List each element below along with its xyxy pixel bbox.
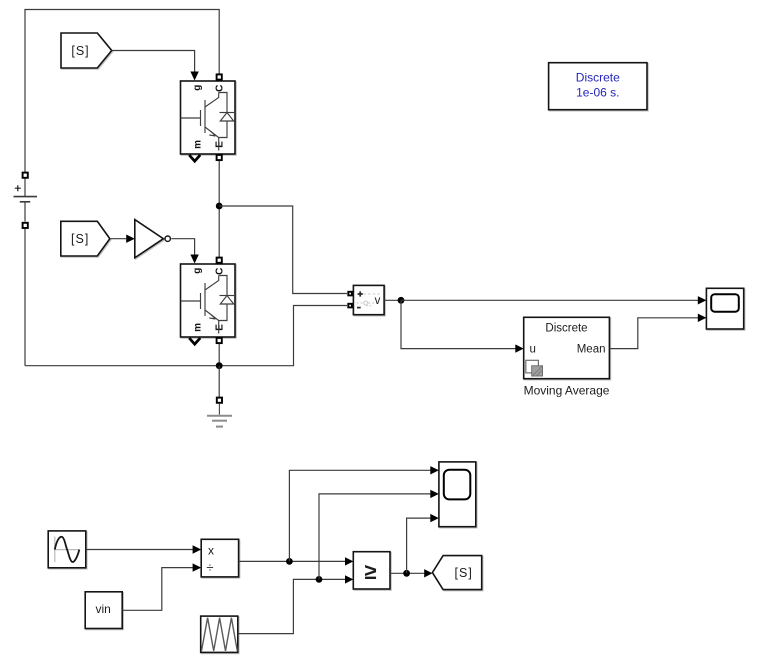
svg-text:g: g <box>192 268 203 274</box>
node junction between IGBTs <box>216 203 223 210</box>
svg-text:1e-06 s.: 1e-06 s. <box>576 86 619 100</box>
IGBT1 E port <box>217 155 222 160</box>
wire junction down to moving average input <box>401 300 516 348</box>
battery + port <box>23 173 28 178</box>
wire sine to product input 1 <box>86 549 193 551</box>
svg-text:[S]: [S] <box>455 566 473 580</box>
ground port <box>217 398 222 403</box>
wire top rail from DC source + up and across to IGBT1 C <box>25 10 219 173</box>
arrowhead into NOT gate <box>126 235 135 243</box>
voltage measurement block VM <box>353 285 384 314</box>
svg-text:C: C <box>214 85 225 92</box>
divide product block <box>201 539 238 577</box>
wire [S]2 to NOT gate <box>110 238 126 240</box>
DC voltage source battery <box>14 173 38 228</box>
arrowhead into IGBT1 g <box>190 72 198 81</box>
IGBT1 internal symbol <box>181 93 236 151</box>
svg-text:E: E <box>215 141 226 148</box>
bottom rail wire <box>25 306 347 366</box>
powergui block Discrete 1e-06 s. <box>549 63 647 110</box>
logic NOT gate U1 <box>135 220 171 258</box>
VM + label <box>358 291 363 296</box>
Scope2 block <box>439 462 476 527</box>
IGBT1 m unconnected chevron <box>189 155 200 161</box>
wire junction up to scope2 input 3 <box>407 518 431 573</box>
svg-text:÷: ÷ <box>206 560 213 575</box>
node junction bottom rail <box>216 362 223 369</box>
battery - port <box>23 223 28 228</box>
svg-text:x: x <box>208 544 214 558</box>
VM + port <box>348 292 352 296</box>
From tag [S]1 <box>61 33 112 68</box>
svg-text:Discrete: Discrete <box>576 70 620 84</box>
svg-text:E: E <box>215 324 226 331</box>
svg-text:m: m <box>193 323 204 332</box>
node junction on triangle wire <box>316 576 323 583</box>
arrowhead into IGBT2 g <box>190 255 198 264</box>
ground symbol <box>207 404 232 427</box>
Scope1 block <box>706 288 743 329</box>
wire [S]1 to IGBT1 gate <box>112 51 195 72</box>
node junction at product output <box>286 558 293 565</box>
wire triangle generator to relational operator input 2 <box>238 579 345 633</box>
wire product output to relational operator input 1 <box>239 560 346 562</box>
wire Moving Average output to scope1 input 2 <box>609 318 698 349</box>
wire NOT gate to IGBT2 gate <box>171 239 194 255</box>
IGBT2 block <box>181 264 236 337</box>
svg-text:≥: ≥ <box>364 559 376 584</box>
wire vin to product input 2 <box>122 568 193 611</box>
IGBT1 block <box>181 81 236 154</box>
IGBT1 C port <box>217 74 222 79</box>
node junction at VM output <box>398 297 405 304</box>
battery plates and wires <box>24 179 26 197</box>
From tag [S]2 <box>61 221 110 256</box>
relational operator block >= <box>353 552 390 589</box>
IGBT2 m unconnected chevron <box>189 338 200 344</box>
svg-text:Mean: Mean <box>577 344 606 356</box>
vin From block <box>85 592 122 629</box>
svg-text:Discrete: Discrete <box>545 322 587 334</box>
wire IGBT1 E to IGBT2 C <box>218 161 220 257</box>
wire junction up to scope2 input 1 <box>289 470 430 561</box>
svg-text:g: g <box>192 85 203 91</box>
wire junction down to ground <box>218 366 220 397</box>
svg-text:u: u <box>530 344 536 356</box>
triangle wave generator block <box>201 616 238 652</box>
IGBT2 internal symbol <box>181 276 236 334</box>
wire IGBT2 E down to bottom rail <box>218 344 220 366</box>
Goto tag [S] <box>432 556 481 590</box>
svg-text:vin: vin <box>96 602 111 616</box>
svg-text:m: m <box>193 140 204 149</box>
wire relational output to goto tag <box>390 572 424 574</box>
Moving Average block <box>524 317 610 378</box>
moving average icon <box>526 360 539 373</box>
svg-text:v: v <box>375 295 381 307</box>
wire VM output <box>384 299 401 301</box>
wire VM output to scope1 input 1 <box>401 299 698 301</box>
sine wave source block <box>48 531 86 568</box>
VM voltmeter icon <box>357 294 382 306</box>
IGBT2 E port <box>217 338 222 343</box>
VM - label <box>357 307 361 309</box>
node junction at relational output <box>403 570 410 577</box>
wire junction to voltage measurement + <box>219 206 347 294</box>
svg-text:Moving Average: Moving Average <box>524 384 610 398</box>
svg-text:[S]: [S] <box>71 44 89 58</box>
IGBT2 C port <box>217 258 222 263</box>
wire junction up to scope2 input 2 <box>319 494 431 580</box>
VM - port <box>348 304 352 308</box>
wire from battery - down to bottom rail <box>24 229 26 366</box>
battery plus sign <box>15 185 21 191</box>
svg-text:[S]: [S] <box>71 232 89 246</box>
svg-text:C: C <box>214 268 225 275</box>
